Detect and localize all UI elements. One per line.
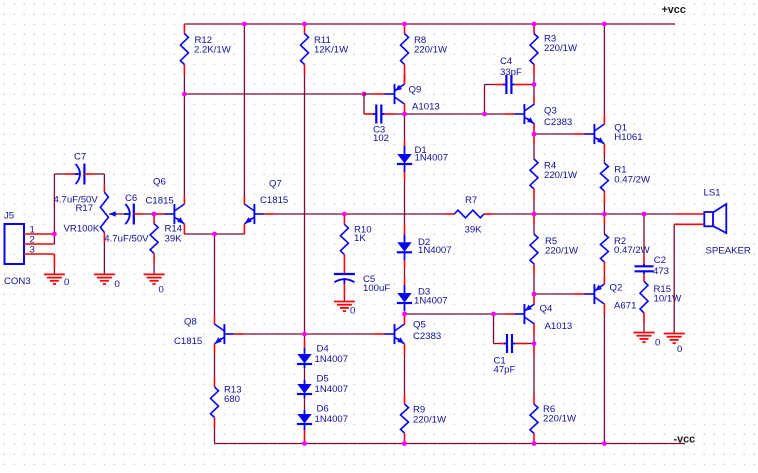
svg-text:12K/1W: 12K/1W — [314, 44, 349, 55]
svg-text:0: 0 — [350, 305, 355, 316]
transistor Q9 A1013 — [394, 84, 396, 104]
wire R5 node to Q2 base — [534, 293, 574, 295]
wire rail2 — [184, 93, 364, 95]
svg-text:R7: R7 — [465, 195, 477, 206]
node Q3 emitter junction — [532, 132, 537, 137]
svg-text:220/1W: 220/1W — [544, 170, 578, 181]
wire node to Q9 base — [364, 93, 375, 95]
wire R7 to output — [493, 213, 534, 215]
svg-text:0.47/2W: 0.47/2W — [614, 174, 651, 185]
wire D6 to -vcc — [304, 430, 306, 444]
diode D4 1N4007 — [304, 348, 306, 354]
connector J5 CON3 — [5, 224, 25, 264]
svg-text:H1061: H1061 — [614, 132, 642, 143]
pin Q5 base — [375, 333, 385, 335]
pin Q2 base — [574, 293, 584, 295]
ground R15 — [634, 332, 655, 334]
wire Q3 to Q1 base — [534, 133, 574, 135]
wire Q7 collector — [243, 24, 245, 196]
node Q2 collector bottom — [602, 441, 607, 446]
node R6 bottom — [532, 441, 537, 446]
svg-text:Q9: Q9 — [409, 85, 422, 96]
wire output to speaker — [644, 213, 675, 215]
ground J5 — [44, 273, 65, 275]
resistor R5 — [533, 214, 535, 224]
pin Q9 emitter — [404, 74, 406, 84]
wire Q7 base to R10 — [274, 213, 344, 215]
resistor R8 — [404, 24, 406, 34]
potentiometer R17 VR100K — [100, 192, 108, 233]
node Q7 collector top — [242, 22, 247, 27]
node output R1/R2 — [602, 212, 607, 217]
svg-text:C2383: C2383 — [413, 331, 441, 342]
wire -vcc bottom rail — [215, 443, 686, 445]
wire C7 left to J5 — [53, 174, 55, 244]
pin Q2 collector — [603, 304, 605, 314]
svg-text:-vcc: -vcc — [674, 434, 696, 446]
wire C7 right lead — [84, 173, 94, 175]
svg-text:220/1W: 220/1W — [413, 415, 447, 426]
pin Q9 base — [375, 93, 385, 95]
node D3 bottom junction — [402, 312, 407, 317]
wire D1-D2 — [404, 172, 406, 180]
resistor R11 — [304, 24, 306, 34]
transistor Q8 C1815 — [223, 324, 225, 344]
wire C3 left lead — [364, 113, 374, 115]
node Q9 collector junction — [402, 112, 407, 117]
pin Q7 base — [264, 213, 274, 215]
svg-text:1N4007: 1N4007 — [315, 414, 349, 425]
svg-text:220/1W: 220/1W — [545, 246, 579, 257]
svg-text:+vcc: +vcc — [662, 4, 686, 16]
wire Q8 base to bias node — [244, 333, 304, 335]
svg-text:Q2: Q2 — [610, 283, 623, 294]
node J5 pin1 junction — [52, 232, 57, 237]
svg-text:39K: 39K — [465, 225, 483, 236]
svg-text:C2383: C2383 — [544, 117, 572, 128]
wire D2-D3 — [404, 260, 406, 268]
pin Q4 collector — [533, 324, 535, 335]
wire output a — [534, 213, 604, 215]
wire row314 — [405, 313, 505, 315]
pin Q1 emitter — [603, 144, 605, 154]
pin Q8 base — [234, 333, 244, 335]
resistor R6 — [533, 344, 535, 354]
svg-text:C1815: C1815 — [146, 196, 174, 207]
capacitor C3 — [375, 105, 377, 124]
svg-text:C6: C6 — [125, 193, 137, 204]
capacitor C6 — [126, 204, 130, 224]
svg-text:1N4007: 1N4007 — [315, 354, 349, 365]
wire C4 left lead — [485, 84, 495, 86]
node Q1 collector top — [602, 22, 607, 27]
wire Q2 collector to -vcc — [603, 314, 605, 444]
wire R17 wiper to C6 — [116, 213, 127, 215]
svg-text:220/1W: 220/1W — [414, 44, 448, 55]
node R8 top — [402, 22, 407, 27]
svg-text:0: 0 — [677, 344, 682, 355]
resistor R7 — [446, 213, 454, 215]
ground R14 — [144, 273, 165, 275]
wire C3 drop — [363, 94, 365, 114]
speaker LS1 — [704, 212, 713, 226]
node C4 right junction — [532, 82, 537, 87]
wire R3 to C4 node — [533, 75, 535, 85]
transistor Q6 C1815 — [173, 204, 175, 224]
svg-text:SPEAKER: SPEAKER — [706, 246, 751, 257]
svg-text:47pF: 47pF — [494, 365, 516, 376]
svg-text:Q4: Q4 — [540, 304, 553, 315]
wire +vcc top rail — [184, 23, 675, 25]
svg-text:220/1W: 220/1W — [543, 414, 577, 425]
node R3 top — [532, 22, 537, 27]
wire C1 left drop — [493, 314, 495, 344]
svg-text:1N4007: 1N4007 — [414, 295, 448, 306]
wire C3 right lead — [385, 113, 394, 115]
resistor R4 — [533, 134, 535, 144]
resistor R13 — [214, 353, 216, 377]
svg-text:0: 0 — [655, 338, 660, 349]
wire D5-D6 — [304, 398, 306, 410]
node R10 top — [342, 212, 347, 217]
ground LS1 — [664, 333, 685, 335]
svg-text:C7: C7 — [74, 152, 86, 163]
wire C4 right lead — [515, 84, 530, 86]
transistor Q3 C2383 — [523, 104, 525, 124]
svg-text:D4: D4 — [317, 344, 330, 355]
capacitor C7 — [76, 164, 80, 184]
svg-text:1N4007: 1N4007 — [418, 245, 452, 256]
wire C2 top — [643, 214, 645, 255]
wire LS1 minus to ground — [673, 224, 675, 333]
capacitor C1 — [506, 334, 508, 353]
node C1 right junction — [532, 341, 537, 346]
diode D5 1N4007 — [304, 380, 306, 384]
wire Q9 base node — [362, 92, 367, 97]
pin Q5 collector — [404, 314, 406, 324]
wire C5 to ground — [343, 284, 345, 299]
svg-text:102: 102 — [373, 133, 389, 144]
capacitor C4 — [505, 75, 507, 94]
transistor Q2 A671 — [593, 284, 595, 304]
svg-text:Q5: Q5 — [413, 320, 426, 331]
diode D2 1N4007 — [404, 234, 406, 242]
wire R11 to bias node — [304, 75, 306, 335]
resistor R9 — [404, 354, 406, 394]
resistor R14 — [153, 214, 155, 224]
pin J5.3 — [24, 253, 54, 255]
wire C4 node to Q3 — [533, 85, 535, 97]
capacitor C5 — [334, 273, 355, 275]
svg-text:C1815: C1815 — [260, 195, 288, 206]
svg-text:220/1W: 220/1W — [544, 43, 578, 54]
wire C1 left lead — [494, 343, 500, 345]
node output C2 — [642, 212, 647, 217]
svg-text:39K: 39K — [165, 233, 183, 244]
node Q6 base junction — [152, 212, 157, 217]
svg-text:VR100K: VR100K — [64, 224, 100, 235]
svg-text:1N4007: 1N4007 — [315, 384, 349, 395]
transistor Q4 A1013 — [523, 304, 525, 324]
wire tail to Q8 — [214, 234, 216, 316]
pin Q6 emitter — [183, 224, 185, 234]
wire Q1 collector — [603, 24, 605, 114]
svg-text:A1013: A1013 — [545, 321, 573, 332]
wire Q6 collector drop — [183, 94, 185, 196]
svg-text:A671: A671 — [614, 301, 636, 312]
svg-text:LS1: LS1 — [704, 188, 721, 199]
pin Q4 emitter — [533, 294, 535, 304]
node R12/Q6 junction — [182, 92, 187, 97]
wire C1 right lead — [515, 343, 528, 345]
svg-text:4.7uF/50V: 4.7uF/50V — [104, 234, 149, 245]
svg-text:Q8: Q8 — [184, 317, 197, 328]
pin J5.2 — [24, 243, 54, 245]
wire diff pair tail — [184, 233, 244, 235]
svg-text:0: 0 — [115, 279, 120, 290]
svg-text:680: 680 — [224, 394, 240, 405]
ground C5 — [334, 301, 355, 303]
pin Q4 base — [504, 313, 514, 315]
pin LS1 minus — [674, 223, 704, 225]
resistor R3 — [533, 24, 535, 34]
svg-text:Q6: Q6 — [153, 177, 166, 188]
pin LS1 plus — [675, 213, 705, 215]
wire bias to Q5 base — [305, 333, 375, 335]
wire R12 to node — [183, 75, 185, 95]
svg-text:1N4007: 1N4007 — [415, 153, 449, 164]
pin Q6 base — [154, 213, 164, 215]
svg-text:473: 473 — [653, 266, 669, 277]
resistor R12 — [183, 24, 185, 34]
svg-text:CON3: CON3 — [4, 276, 31, 287]
pin Q3 emitter — [533, 124, 535, 134]
transistor Q7 C1815 — [253, 204, 255, 224]
svg-text:C2: C2 — [654, 255, 666, 266]
svg-text:100uF: 100uF — [363, 283, 390, 294]
wire Q9 to D1 — [404, 114, 406, 141]
pin Q9 collector — [404, 104, 406, 114]
node bias junction — [302, 332, 307, 337]
pin Q3 base — [504, 113, 514, 115]
pin Q5 emitter — [404, 344, 406, 354]
node R11 top — [302, 22, 307, 27]
wire D4-D5 — [304, 368, 306, 380]
node R5 bottom junction — [532, 292, 537, 297]
node output R5 — [532, 212, 537, 217]
wire R17 bottom to ground — [103, 233, 105, 243]
svg-text:0.47/2W: 0.47/2W — [614, 245, 651, 256]
svg-text:Q3: Q3 — [544, 106, 557, 117]
resistor R2 — [603, 214, 605, 224]
diode D1 1N4007 — [404, 146, 406, 154]
wire D3 to node — [404, 311, 406, 314]
resistor R15 — [643, 274, 645, 281]
resistor R10 — [343, 214, 345, 224]
pin Q1 base — [574, 133, 584, 135]
pin Q2 emitter — [603, 274, 605, 284]
transistor Q5 C2383 — [394, 324, 396, 344]
node C4 left — [482, 112, 487, 117]
wire J5.3 to ground — [53, 254, 55, 269]
svg-text:C1815: C1815 — [174, 336, 202, 347]
node tail junction — [212, 232, 217, 237]
svg-text:R17: R17 — [76, 203, 94, 214]
svg-text:C4: C4 — [500, 56, 513, 67]
diode D6 1N4007 — [304, 410, 306, 414]
node C1 left — [491, 312, 496, 317]
pin Q8 emitter — [214, 344, 216, 353]
wire C7 left lead — [54, 173, 65, 175]
diode D3 1N4007 — [404, 285, 406, 293]
node D6 bottom — [302, 441, 307, 446]
wire to R7 — [344, 213, 446, 215]
wire bias to D4 — [304, 334, 306, 340]
svg-text:10/1W: 10/1W — [654, 294, 683, 305]
wire output b — [604, 213, 644, 215]
svg-text:A1013: A1013 — [412, 102, 440, 113]
node R9 bottom — [402, 441, 407, 446]
svg-text:1K: 1K — [354, 233, 366, 244]
wire C4 left drop — [484, 85, 486, 115]
svg-text:D5: D5 — [317, 374, 329, 385]
pin Q7 emitter — [243, 224, 245, 234]
svg-text:0: 0 — [159, 285, 164, 296]
svg-text:0: 0 — [64, 277, 69, 288]
transistor Q1 H1061 — [593, 124, 595, 144]
svg-text:33pF: 33pF — [500, 67, 522, 78]
svg-text:D6: D6 — [317, 404, 329, 415]
pin J5.1 — [24, 233, 54, 235]
wire C6 right lead — [134, 213, 144, 215]
resistor R1 — [603, 154, 605, 163]
wire row114 — [405, 113, 505, 115]
capacitor C2 — [635, 265, 654, 267]
ground R17 — [94, 273, 115, 275]
svg-text:J5: J5 — [4, 211, 14, 222]
svg-text:Q7: Q7 — [269, 179, 282, 190]
svg-text:3: 3 — [30, 244, 35, 255]
svg-text:2.2K/1W: 2.2K/1W — [194, 44, 232, 55]
